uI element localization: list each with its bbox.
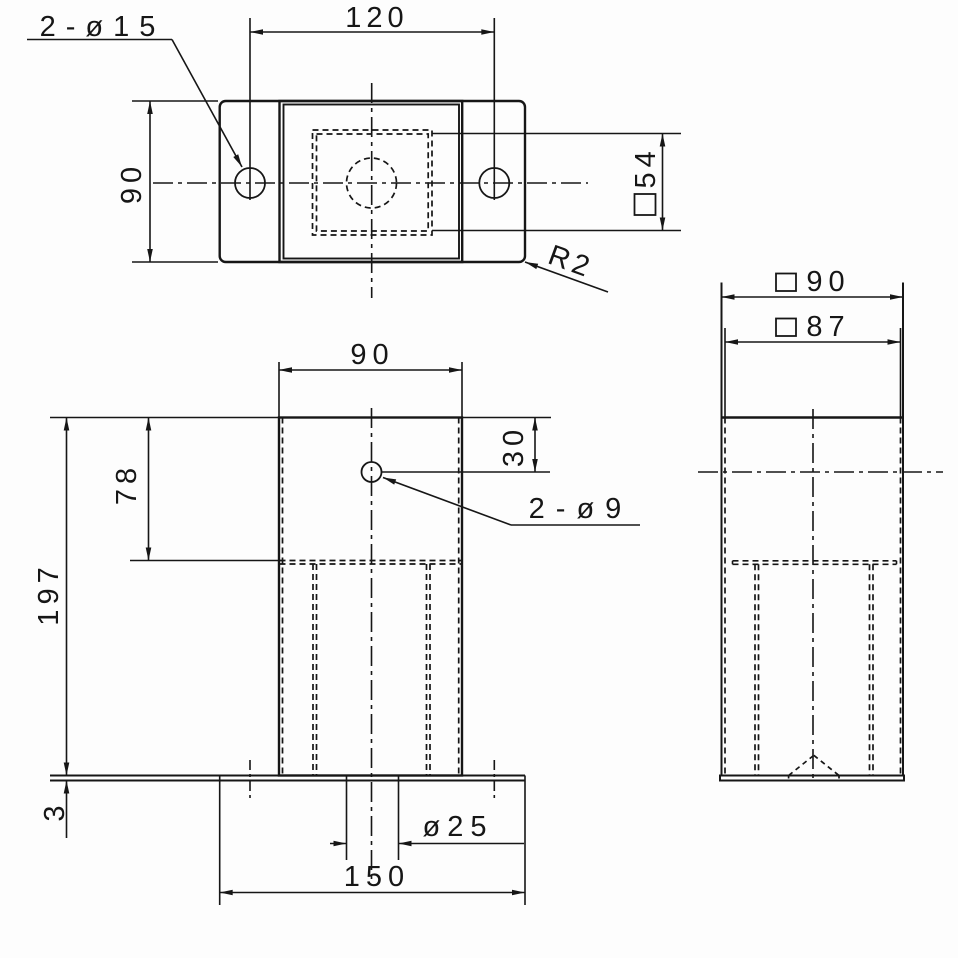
dimension sq54 lower extension line (432, 230, 681, 232)
dimension sq90 square symbol (776, 274, 796, 292)
top view: square tube outer outline 90x90 (280, 101, 463, 262)
top view: horizontal center line (153, 182, 588, 184)
svg-text:R2: R2 (544, 239, 597, 284)
front view: base plate bottom edge with left extension (50, 780, 525, 782)
dimension 90 bottom extension line (132, 261, 218, 263)
front view: vertical center line (371, 408, 373, 885)
label 2-dia15 leader underline (27, 39, 172, 41)
side view: inner wall extension lines for sq87 (724, 328, 726, 418)
side view: hidden drill point right leg (dashed) (814, 755, 839, 775)
front view: hidden inner wall left (dashed) (282, 418, 284, 776)
side view: hidden pocket bottom lower line (dashed) (733, 563, 897, 565)
front view: column outline (279, 418, 462, 776)
front view: hole dia9 (362, 462, 382, 482)
svg-text:150: 150 (344, 861, 410, 893)
top view: left hole center line / extension line for dim 120 (249, 18, 251, 200)
front view: base plate right edge / extension line for dim 150 (524, 776, 526, 906)
svg-text:30: 30 (498, 425, 530, 467)
side view: left outer wall / extension line for sq90 (721, 283, 723, 776)
svg-text:87: 87 (806, 311, 850, 343)
top view: flange plate outline R2 rounded (220, 101, 525, 262)
svg-text:3: 3 (39, 800, 71, 821)
dimension dia25 right extension line (398, 776, 400, 861)
top view: vertical center line (371, 83, 373, 298)
front view: base plate left edge / extension line for dim 150 (219, 776, 221, 906)
dimension dia25 line with outside arrows (330, 843, 347, 845)
svg-text:197: 197 (33, 562, 65, 625)
side view: hidden pocket wall pair right (dashed) (869, 564, 871, 775)
dimension 197 line with arrows (66, 418, 68, 776)
side view: hidden drill point left leg (dashed) (789, 755, 814, 775)
dimension 78 extension line (130, 560, 278, 562)
top view: right bolt hole dia15 (479, 168, 509, 198)
svg-text:120: 120 (345, 2, 408, 34)
dimension sq90 line with arrows (722, 296, 904, 298)
front view: hidden pocket wall pair left (dashed) (312, 564, 314, 776)
label 2-dia15 leader line with arrow to left hole (172, 40, 242, 168)
dimension 120 line with arrows (250, 31, 494, 33)
side view: base plate outline (720, 776, 904, 781)
dimension 90 line with arrows (149, 101, 151, 262)
side view: horizontal center line (698, 471, 943, 473)
dimension sq54 upper extension line (432, 133, 681, 135)
dimension dia25 left extension line (346, 776, 348, 861)
side view: vertical center line (812, 409, 814, 779)
side view: hidden pocket wall pair left (dashed) (754, 564, 756, 775)
side view: hidden pocket bottom end stubs (732, 561, 734, 565)
dimension 30 line with arrows (534, 418, 536, 473)
side view: right outer wall / extension line for sq90 (902, 283, 904, 776)
svg-text:2-ø15: 2-ø15 (40, 11, 166, 43)
svg-text:54: 54 (630, 146, 662, 188)
top view: square tube inner wall outline (284, 105, 460, 259)
front view: extension line from hole for dim 30 (382, 471, 551, 473)
svg-text:90: 90 (116, 162, 148, 204)
top view: left bolt hole dia15 (235, 168, 265, 198)
side view: top edge (722, 416, 904, 418)
front view: base plate top edge with left extension (50, 775, 525, 777)
side view: hidden inner wall left (dashed) (724, 418, 726, 776)
front view: hidden pocket bottom lower line (dashed) (280, 563, 462, 565)
dimension sq54 line with arrows (662, 134, 664, 231)
side view: hidden hole edge stubs through plate (dashed) (788, 776, 790, 781)
dimension 90 top extension line (132, 100, 218, 102)
front view: hidden pocket bottom upper line (dashed) (280, 560, 462, 562)
svg-text:ø25: ø25 (423, 811, 494, 843)
dimension sq87 line with arrows (725, 341, 901, 343)
label 2-dia9 leader underline (511, 524, 640, 526)
top view: hidden square pocket outer edge (dashed) (313, 130, 433, 235)
svg-text:90: 90 (350, 339, 394, 371)
dimension sq54 square symbol (635, 194, 656, 215)
front view: hidden inner wall right (dashed) (458, 418, 460, 776)
top view: hidden circle dia25 (dashed) (347, 158, 397, 208)
dimension 90 front extension lines above column (278, 362, 280, 418)
front view: left bolt hole center mark in plate (249, 760, 251, 798)
dimension 78 line with arrows (148, 418, 150, 561)
top view: right hole center line / extension line for dim 120 (493, 18, 495, 200)
dimension 90 front line with arrows (279, 369, 462, 371)
front view: hidden pocket wall pair right (dashed) (426, 564, 428, 776)
top view: hidden square pocket inner edge sq54 (dashed) (317, 134, 429, 231)
dimension 150 line with arrows (220, 892, 525, 894)
dimension 3 arrow and tail (64, 781, 70, 794)
front view: top extension line shared by dims (50, 417, 551, 419)
side view: hidden pocket bottom upper line (dashed) (733, 560, 897, 562)
label R2 leader line with arrow to plate corner (525, 262, 608, 292)
dimension sq87 square symbol (776, 319, 796, 337)
svg-text:2-ø9: 2-ø9 (529, 493, 633, 525)
front view: right bolt hole center mark in plate (493, 760, 495, 798)
svg-text:78: 78 (111, 463, 143, 505)
side view: hidden inner wall right (dashed) (900, 418, 902, 776)
label 2-dia9 leader line with arrow to hole (383, 478, 511, 526)
svg-text:90: 90 (806, 266, 850, 298)
